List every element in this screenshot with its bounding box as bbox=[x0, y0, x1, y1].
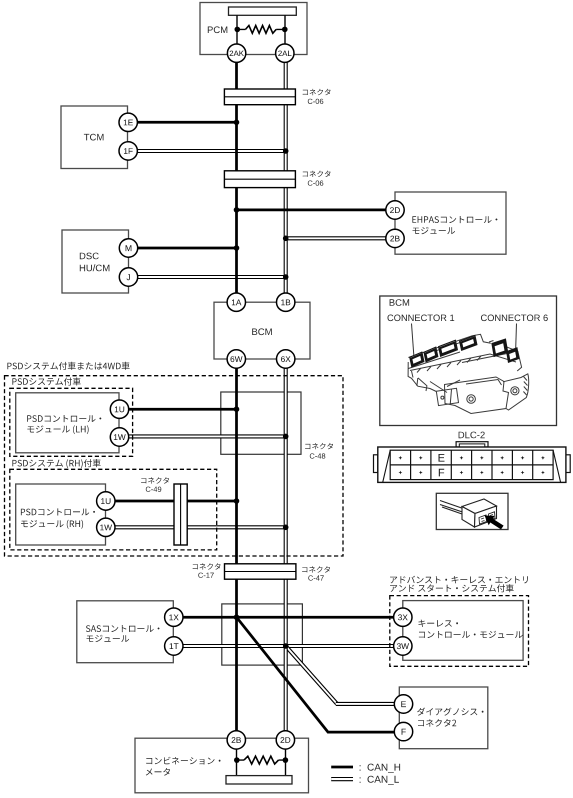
wire CAN_H branch TCM 1E to bus bbox=[133, 121, 237, 124]
pin 2AK bbox=[227, 44, 245, 62]
junction EHPAS 2B bbox=[283, 236, 289, 242]
connector C-47 boundary bbox=[222, 604, 303, 665]
connector C-48 boundary bbox=[221, 392, 301, 454]
module TCM bbox=[61, 106, 128, 169]
pin BCM 6W bbox=[227, 350, 245, 368]
pin meter 2B bbox=[227, 731, 245, 749]
pin SAS 1T bbox=[165, 637, 183, 655]
pin PSD-LH 1W bbox=[110, 428, 128, 446]
wire PCM internal left bbox=[236, 15, 238, 44]
pin PSD-RH 1U bbox=[97, 492, 115, 510]
module diagnosis connector 2 bbox=[399, 687, 488, 749]
wire CAN_L branch PSD-LH 1W to bus bbox=[125, 434, 286, 438]
pin BCM 6X bbox=[277, 350, 295, 368]
connector C-06 lower bbox=[224, 171, 295, 188]
boundary dashed PSD RH bbox=[10, 469, 217, 550]
wire CAN_H branch PSD-LH 1U to bus bbox=[125, 408, 237, 411]
boundary dashed PSD LH bbox=[10, 388, 133, 456]
pin EHPAS 2D bbox=[386, 201, 404, 219]
pin keyless 3W bbox=[394, 637, 412, 655]
junction PSD-LH 1U bbox=[234, 406, 240, 412]
label PSD system or 4WD variant bbox=[7, 362, 129, 370]
pin diagnosis E bbox=[394, 695, 412, 713]
wire CAN_L branch DSC J to bus bbox=[133, 275, 286, 279]
illustration BCM module body bbox=[408, 334, 529, 413]
junction PSD-RH 1U bbox=[234, 498, 240, 504]
connector C-49 bbox=[174, 484, 187, 545]
wire CAN_L branch SAS 1T to keyless 3W bbox=[179, 644, 397, 648]
label advanced keyless entry variant line1 bbox=[390, 576, 528, 584]
module SAS control module bbox=[77, 601, 174, 663]
module PSD control module LH bbox=[16, 393, 119, 453]
leader line CONNECTOR 1 bbox=[412, 324, 414, 357]
illustration box BCM connectors bbox=[380, 296, 557, 426]
wire CAN_L branch TCM 1F to bus bbox=[133, 149, 286, 153]
wire CAN_H bus lower segment bbox=[235, 368, 238, 731]
pin PSD-LH 1U bbox=[110, 400, 128, 418]
resistor PCM terminating bbox=[235, 26, 288, 34]
boundary dashed PSD system or 4WD bbox=[5, 376, 344, 556]
label connector C-17 bbox=[193, 563, 221, 578]
label PSD system variant bbox=[12, 377, 80, 385]
connector DLC-2 pin grid bbox=[390, 450, 553, 479]
module combination meter bbox=[135, 738, 309, 793]
pin diagnosis F bbox=[394, 722, 412, 740]
junction SAS 1X bbox=[234, 614, 240, 620]
pin keyless 3X bbox=[394, 608, 412, 626]
illustration box DLC-2 plug bbox=[436, 493, 508, 529]
junction PSD-LH 1W bbox=[283, 434, 289, 440]
label DLC-2 bbox=[459, 432, 485, 439]
label advanced keyless entry variant line2 bbox=[390, 584, 514, 592]
junction TCM 1E bbox=[234, 120, 240, 126]
wire CAN_H diagonal bus to diagnosis F bbox=[237, 617, 397, 732]
legend CAN_L bbox=[331, 776, 399, 785]
module EHPAS control module bbox=[395, 192, 506, 254]
pin TCM 1E bbox=[119, 113, 137, 131]
wire CAN_H branch DSC M to bus bbox=[133, 247, 237, 250]
junction DSC M bbox=[234, 245, 240, 251]
module DSC HU/CM bbox=[62, 230, 129, 293]
wire CAN_L diagonal bus to diagnosis E bbox=[286, 646, 397, 704]
label connector C-48 bbox=[305, 443, 333, 459]
wire CAN_L bus upper segment bbox=[284, 44, 288, 293]
pin DLC-2 E bbox=[439, 454, 445, 462]
illustration BCM connector sockets bbox=[410, 336, 519, 367]
wire CAN_H branch SAS 1X to keyless 3X bbox=[179, 616, 397, 619]
boundary dashed keyless system bbox=[390, 596, 529, 667]
wire CAN_H bus upper segment bbox=[235, 44, 238, 293]
wire meter internal right bbox=[285, 749, 287, 776]
label connector C-06 lower bbox=[303, 171, 331, 186]
terminator bar meter bbox=[226, 776, 292, 784]
module PSD control module RH bbox=[16, 484, 106, 545]
resistor meter terminating bbox=[234, 756, 288, 764]
pin BCM 1B bbox=[277, 293, 295, 311]
illustration DLC-2 plug bbox=[440, 499, 497, 527]
wire CAN_L branch EHPAS 2B to bus bbox=[286, 236, 390, 240]
pin TCM 1F bbox=[119, 142, 137, 160]
pin SAS 1X bbox=[165, 608, 183, 626]
label PSD system RH variant bbox=[12, 459, 100, 468]
wire CAN_H branch PSD-RH 1U to bus bbox=[111, 500, 237, 503]
junction DSC J bbox=[283, 274, 289, 280]
connector C-17 bbox=[225, 564, 296, 579]
label connector C-06 upper bbox=[303, 89, 331, 104]
label connector C-49 bbox=[141, 477, 169, 492]
module keyless control module bbox=[403, 601, 523, 661]
pin BCM 1A bbox=[227, 293, 245, 311]
junction SAS 1T bbox=[283, 643, 289, 649]
wire CAN_H branch EHPAS 2D to bus bbox=[237, 209, 391, 212]
pin EHPAS 2B bbox=[386, 229, 404, 247]
junction EHPAS 2D bbox=[234, 207, 240, 213]
wire meter internal left bbox=[236, 749, 238, 776]
pin meter 2D bbox=[276, 731, 294, 749]
pin DLC-2 F bbox=[439, 469, 444, 477]
connector DLC-2 housing bbox=[374, 442, 571, 483]
junction TCM 1F bbox=[283, 148, 289, 154]
connector C-06 upper bbox=[224, 89, 295, 105]
pin PSD-RH 1W bbox=[97, 518, 115, 536]
pin marks DLC-2 bbox=[398, 456, 544, 475]
pin 2AL bbox=[276, 44, 294, 62]
leader line CONNECTOR 6 bbox=[515, 324, 518, 352]
pin DSC M bbox=[119, 239, 137, 257]
illustration arrow bbox=[485, 516, 504, 530]
module PCM bbox=[200, 3, 307, 55]
wire CAN_L bus lower segment bbox=[284, 368, 288, 731]
pin DSC J bbox=[119, 268, 137, 286]
module BCM bbox=[214, 302, 310, 359]
label connector C-47 bbox=[302, 566, 330, 581]
junction PSD-RH 1W bbox=[283, 525, 289, 531]
wire CAN_L branch PSD-RH 1W to bus bbox=[111, 525, 286, 529]
wire PCM internal right bbox=[284, 15, 286, 44]
legend CAN_H bbox=[331, 764, 400, 773]
terminator bar PCM bbox=[229, 7, 297, 15]
